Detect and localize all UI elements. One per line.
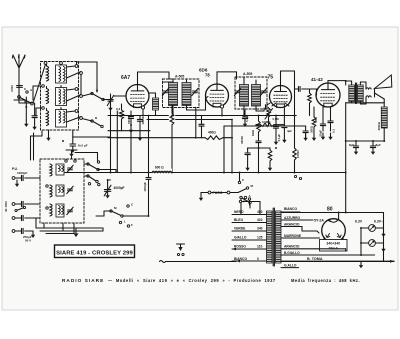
svg-text:78: 78 [205, 73, 210, 78]
variable capacitor RF [108, 99, 113, 101]
power transformer primary [267, 211, 273, 263]
terminal input2 [12, 203, 15, 206]
svg-text:B. TOMA: B. TOMA [307, 257, 323, 261]
capacitor 41-42 k [322, 107, 324, 124]
capacitor 8uF b [372, 141, 374, 146]
terminal input3 [12, 217, 15, 220]
svg-text:A-505: A-505 [243, 72, 252, 76]
wire GALLO [281, 267, 299, 269]
wire grid 6A7 [114, 95, 126, 97]
wire tap NERO [232, 214, 267, 216]
svg-text:0,5M: 0,5M [273, 117, 280, 121]
coil RF primary 3 [47, 111, 49, 126]
wire [107, 180, 109, 183]
svg-text:125: 125 [257, 236, 263, 240]
wire MARRONE [281, 237, 320, 239]
wire osc bottom 1 [36, 227, 103, 229]
wire osc bottom 3 [46, 233, 74, 235]
wire tap GIALLO [232, 239, 267, 241]
wire filter bus [346, 140, 385, 142]
wire lamp gnd [375, 227, 383, 229]
svg-text:340: 340 [257, 227, 263, 231]
resistor 75 grid leak [261, 123, 275, 127]
svg-text:4000pF: 4000pF [114, 186, 125, 190]
IF2 trimmer R [261, 90, 266, 92]
terminal row [75, 65, 78, 68]
svg-text:L: L [124, 220, 126, 224]
svg-text:6A7: 6A7 [121, 75, 130, 81]
wire tap BIANCO [232, 260, 267, 262]
svg-text:8+2 μF: 8+2 μF [78, 144, 88, 148]
junction dots 2 [130, 172, 132, 174]
wire [148, 179, 150, 216]
capacitor 250uF [12, 230, 15, 233]
coil osc 2 [50, 185, 52, 197]
lamp 1 [369, 225, 376, 232]
svg-text:1MΩ: 1MΩ [251, 129, 255, 136]
capacitor shunt [247, 148, 249, 153]
wire HT centre [281, 212, 384, 214]
ground antenna sw [25, 97, 27, 120]
svg-text:G.ALLO: G.ALLO [284, 263, 297, 267]
svg-text:8μF: 8μF [376, 143, 382, 147]
capacitor 8+2uF [70, 143, 76, 145]
svg-text:F: F [243, 200, 245, 204]
switch mains [238, 189, 246, 193]
terminal antenna feed [44, 62, 47, 65]
svg-text:2000: 2000 [10, 85, 14, 92]
coil osc sec 1 [56, 164, 64, 175]
lamp 2 [369, 240, 376, 247]
wire 80 top [383, 213, 385, 262]
svg-text:10000: 10000 [141, 116, 145, 124]
coil osc sec 3 [56, 204, 64, 217]
wire tap ROSSO [232, 248, 267, 250]
IF1 primary [169, 83, 178, 106]
coil osc 1 [50, 164, 52, 176]
trimmer osc 1 [68, 167, 73, 169]
svg-text:F: F [131, 223, 133, 227]
wire cathode bus [108, 115, 296, 117]
switch band [91, 92, 93, 94]
wire [231, 120, 233, 173]
tube 41-42 [316, 83, 340, 107]
wire [46, 64, 48, 66]
resistor 41-42 grid [308, 93, 312, 103]
svg-text:41-42: 41-42 [311, 77, 323, 82]
diode lines 75 [285, 103, 289, 106]
svg-text:20000: 20000 [240, 136, 244, 144]
capacitor inline [256, 140, 261, 142]
svg-text:BLEU: BLEU [234, 218, 244, 222]
switch antenna [18, 96, 21, 99]
switch band 2 [91, 120, 93, 122]
svg-text:50μF: 50μF [319, 130, 323, 137]
coil box oscillator dashed [40, 159, 84, 223]
variable capacitor osc [104, 189, 110, 191]
capacitor coupling [295, 88, 299, 90]
svg-text:GIALLO: GIALLO [234, 236, 247, 240]
svg-text:SIARE 419 - CROSLEY 299: SIARE 419 - CROSLEY 299 [56, 251, 133, 257]
svg-text:BIANCO: BIANCO [284, 207, 297, 211]
label box 340+340 [320, 240, 348, 252]
svg-text:80: 80 [327, 207, 333, 213]
terminal RF left mid [42, 85, 45, 88]
wire ARANCIO2 [281, 248, 346, 250]
mains terminals [177, 253, 179, 255]
wire [46, 87, 48, 89]
svg-text:VERDE: VERDE [234, 227, 246, 231]
svg-text:70mA: 70mA [329, 246, 339, 250]
tube 6A7 [126, 85, 149, 108]
capacitor antenna shunt [34, 103, 36, 116]
wire [116, 111, 118, 173]
wire branch [248, 147, 270, 149]
svg-text:A-505: A-505 [175, 75, 184, 79]
svg-text:ARANCIO: ARANCIO [284, 245, 300, 249]
wire [67, 66, 76, 67]
svg-text:— Modelli « Siare 419 » e «: — Modelli « Siare 419 » e « Crosley 299 … [108, 278, 276, 283]
wire band feed [75, 152, 98, 154]
wire plate 41-42 [327, 81, 329, 83]
svg-text:MARRONE: MARRONE [284, 234, 302, 238]
title box [55, 245, 135, 258]
fuse [208, 191, 211, 194]
resistor 6D6 screen [205, 136, 223, 140]
wire lower bus [108, 137, 205, 139]
svg-text:FUSO: FUSO [213, 191, 223, 195]
wire [110, 110, 112, 173]
wire [294, 71, 296, 148]
coil oscillator anode [153, 98, 159, 110]
wire IF1 [169, 78, 173, 80]
wire plate 6A7 [137, 72, 139, 85]
wire ARANCIO1 [281, 226, 302, 228]
wire [148, 116, 150, 178]
wire [14, 99, 25, 101]
capacitor 8uF a [355, 141, 357, 146]
wire [351, 81, 353, 85]
antenna [18, 68, 20, 95]
svg-text:350Ω: 350Ω [310, 125, 314, 133]
svg-text:40–50Ω: 40–50Ω [4, 201, 8, 212]
capacitor 75 grid [265, 105, 267, 109]
power transformer secondary [276, 211, 282, 263]
tube 80 rectifier [322, 219, 346, 243]
wire B+ riser [345, 103, 347, 213]
svg-text:0: 0 [257, 257, 259, 261]
ground lamp2 [383, 245, 385, 250]
svg-text:4μF: 4μF [287, 129, 292, 133]
junction dots [171, 115, 173, 117]
wire IF2 [243, 77, 245, 85]
capacitor tone [146, 177, 151, 179]
svg-text:1000pF: 1000pF [17, 171, 28, 175]
svg-text:6.3V: 6.3V [355, 220, 363, 224]
ground mains [201, 192, 208, 194]
capacitor det bypass [275, 116, 277, 127]
IF transformer 1 dashed box [163, 79, 200, 108]
wire [223, 126, 225, 173]
wire [171, 98, 173, 113]
capacitor avc [305, 126, 307, 131]
wire [84, 163, 88, 165]
pin 6D6 [220, 105, 223, 108]
svg-text:0,3: 0,3 [116, 107, 121, 111]
svg-text:6.3V~: 6.3V~ [374, 220, 383, 224]
coil RF secondary 2 [56, 88, 67, 106]
wire lamp rail [360, 228, 362, 255]
switch tone [127, 205, 129, 207]
svg-text:NERO: NERO [234, 210, 244, 214]
mains plug [160, 261, 166, 263]
svg-text:BIANCO: BIANCO [234, 257, 247, 261]
wire BGIALLO [281, 254, 375, 256]
svg-text:400Ω: 400Ω [208, 131, 216, 135]
svg-text:600 Ω: 600 Ω [155, 165, 164, 169]
resistor 41-42 k [313, 107, 315, 117]
switch osc band [87, 163, 89, 165]
wire [76, 62, 78, 65]
speaker horn [375, 75, 392, 89]
IF2 secondary [252, 85, 261, 107]
wire screen bus [147, 119, 232, 121]
svg-text:2000Ω: 2000Ω [377, 121, 381, 130]
svg-text:ARANCIO: ARANCIO [284, 222, 300, 226]
coil osc sec 2 [56, 185, 64, 196]
svg-text:410: 410 [257, 218, 263, 222]
coil box RF dashed [41, 62, 79, 131]
svg-text:450: 450 [257, 210, 263, 214]
wire plate 6D6 [216, 72, 218, 84]
capacitor osc [171, 91, 173, 98]
wire drops [43, 223, 45, 228]
pin 6A7 [141, 106, 144, 109]
svg-text:1000pF: 1000pF [143, 182, 147, 192]
IF2 primary [240, 85, 249, 107]
wire B+ bus [56, 172, 346, 174]
IF1 secondary [182, 83, 191, 106]
wire [46, 109, 48, 111]
svg-text:50000: 50000 [127, 116, 131, 124]
coil RF primary 2 [47, 89, 49, 104]
capacitor 6A7 k [130, 111, 132, 117]
capacitor 6D6 [244, 110, 246, 117]
tube 6D6 [206, 84, 229, 107]
tube 75 [270, 86, 292, 108]
wire grid 41-42 [316, 89, 318, 95]
wire [346, 102, 385, 104]
wire 80 fil [323, 237, 325, 240]
wire AZZURRO [281, 219, 313, 221]
svg-text:B.GIALLO: B.GIALLO [284, 251, 300, 255]
coil RF secondary 3 [56, 110, 67, 128]
resistor 6A7 bias [121, 104, 123, 110]
trimmer osc 3 [68, 209, 73, 211]
svg-text:ROSSO: ROSSO [234, 245, 246, 249]
ground top [71, 150, 73, 152]
output transformer core [355, 83, 357, 104]
switch input [15, 209, 17, 211]
wire [71, 157, 73, 159]
speaker voice coil [366, 88, 371, 89]
svg-text:75: 75 [268, 75, 274, 81]
choke 600ohm [152, 169, 172, 173]
svg-text:0,1: 0,1 [332, 129, 336, 133]
wire [108, 130, 150, 132]
wire AVC bus [224, 125, 306, 127]
output transformer primary [349, 85, 355, 102]
arrow tap rosso [232, 248, 236, 251]
terminal PU [12, 177, 15, 180]
svg-text:RADIO SIARE: RADIO SIARE [62, 278, 104, 283]
terminal osc [65, 160, 67, 162]
ground lamp1 [383, 230, 385, 235]
field coil 2000ohm [381, 107, 387, 128]
wire BTOMA [281, 260, 394, 262]
svg-text:0,1μF: 0,1μF [277, 134, 281, 142]
coil osc 3 [50, 204, 52, 216]
svg-text:110: 110 [257, 245, 262, 249]
capacitor 75 c [283, 108, 285, 126]
potentiometer volume [268, 107, 270, 110]
capacitor 41-42 b [330, 107, 332, 121]
svg-text:Media frequenza : 468 kHz.: Media frequenza : 468 kHz. [291, 278, 360, 283]
trimmer osc 2 [68, 188, 73, 190]
wire tap VERDE [232, 230, 267, 232]
switch mains tap [240, 196, 242, 198]
svg-text:340+340: 340+340 [326, 242, 340, 246]
ground osc [75, 229, 77, 235]
IF2 trimmer L [235, 90, 240, 92]
IF1 trimmer R [193, 90, 198, 92]
capacitor 6A7 g [137, 118, 142, 120]
coil RF primary 1 [47, 66, 49, 81]
wire [139, 116, 141, 120]
svg-text:8μF: 8μF [349, 143, 355, 147]
IF transformer 2 dashed box [235, 77, 267, 109]
power transformer core [272, 208, 274, 266]
wire osc bottom 2 [40, 230, 103, 232]
coil RF secondary 1 [56, 65, 67, 83]
resistor avc [269, 148, 271, 150]
wire 80 anode [338, 213, 340, 220]
switch contacts bus [294, 175, 296, 177]
capacitor 6D6 cathode [201, 116, 203, 125]
svg-text:350: 350 [314, 117, 318, 122]
wire BIANCO hv [281, 211, 300, 213]
ground BTOMA [360, 261, 362, 266]
wire [195, 108, 197, 138]
wire plate 75 [280, 71, 282, 86]
resistor detector load [258, 116, 260, 122]
svg-text:5Y-2A: 5Y-2A [314, 219, 324, 223]
svg-text:0,5MΩ: 0,5MΩ [262, 120, 271, 124]
wire osc grid [130, 125, 132, 173]
svg-text:50 V: 50 V [25, 239, 31, 243]
output transformer secondary [358, 85, 364, 102]
svg-text:10000: 10000 [296, 150, 300, 158]
wire tap BLEU [232, 222, 267, 224]
svg-text:0,1μF: 0,1μF [245, 114, 249, 122]
svg-text:AZZURRO: AZZURRO [284, 216, 301, 220]
IF1 trimmer L [163, 90, 168, 92]
capacitor antenna series [17, 85, 23, 87]
